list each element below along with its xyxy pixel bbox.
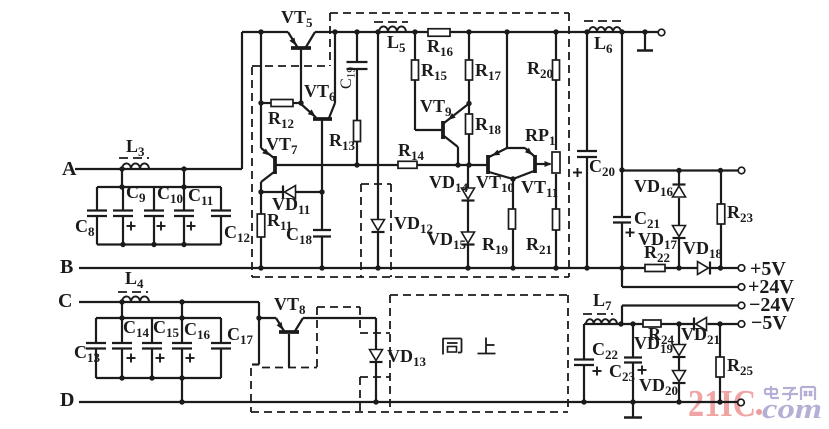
svg-text:R25: R25 (727, 355, 754, 378)
svg-text:VD21: VD21 (681, 324, 720, 347)
svg-text:C8: C8 (75, 216, 95, 239)
svg-text:C12: C12 (224, 222, 250, 245)
svg-text:R12: R12 (268, 108, 294, 131)
svg-text:C18: C18 (286, 224, 313, 247)
svg-text:C19: C19 (338, 67, 358, 89)
svg-text:C13: C13 (74, 342, 101, 365)
svg-text:VD11: VD11 (272, 194, 310, 217)
svg-text:VT7: VT7 (266, 134, 298, 157)
svg-text:L6: L6 (594, 33, 613, 56)
svg-text:C20: C20 (589, 156, 615, 179)
svg-text:−5V: −5V (751, 312, 787, 334)
svg-text:R17: R17 (475, 60, 502, 83)
svg-text:C15: C15 (153, 317, 180, 340)
svg-text:VD14: VD14 (429, 172, 469, 195)
svg-text:L7: L7 (593, 290, 612, 313)
svg-text:VD16: VD16 (634, 176, 674, 199)
svg-text:R13: R13 (329, 130, 356, 153)
svg-text:C22: C22 (592, 339, 618, 362)
svg-text:C16: C16 (184, 319, 211, 342)
svg-text:VD15: VD15 (427, 229, 467, 252)
svg-text:R21: R21 (526, 234, 552, 257)
svg-text:C23: C23 (609, 361, 636, 384)
svg-text:VT10: VT10 (476, 172, 514, 195)
svg-text:VT6: VT6 (304, 81, 336, 104)
svg-text:C9: C9 (126, 182, 146, 205)
svg-text:R14: R14 (398, 140, 425, 163)
svg-text:VD13: VD13 (387, 346, 427, 369)
svg-text:C17: C17 (227, 324, 254, 347)
svg-text:VT8: VT8 (274, 294, 306, 317)
svg-text:VD20: VD20 (639, 375, 678, 398)
svg-text:VD17: VD17 (638, 229, 678, 252)
svg-text:C11: C11 (188, 185, 213, 208)
svg-text:L5: L5 (387, 32, 406, 55)
svg-text:C21: C21 (634, 208, 660, 231)
svg-text:B: B (60, 256, 73, 278)
svg-text:D: D (60, 389, 74, 411)
svg-text:R19: R19 (482, 234, 509, 257)
svg-text:R18: R18 (475, 114, 502, 137)
svg-text:VT5: VT5 (281, 7, 313, 30)
svg-text:L4: L4 (125, 268, 144, 291)
svg-text:C: C (58, 290, 72, 312)
svg-text:R16: R16 (427, 36, 454, 59)
svg-text:21IC: 21IC (688, 383, 756, 425)
svg-text:L3: L3 (126, 136, 145, 159)
svg-text:VD18: VD18 (683, 238, 723, 261)
svg-text:R15: R15 (421, 60, 448, 83)
svg-text:RP1: RP1 (525, 125, 556, 148)
svg-text:R23: R23 (727, 202, 754, 225)
svg-text:VT11: VT11 (521, 177, 558, 200)
svg-text:VT9: VT9 (420, 96, 452, 119)
svg-text:A: A (62, 158, 77, 180)
svg-text:C14: C14 (123, 317, 150, 340)
svg-text:R20: R20 (527, 58, 553, 81)
